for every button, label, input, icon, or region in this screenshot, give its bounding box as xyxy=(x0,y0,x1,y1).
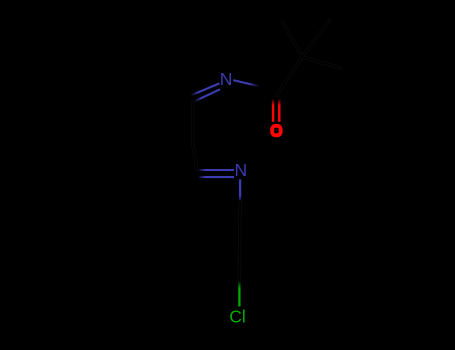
svg-text:N: N xyxy=(220,69,233,89)
svg-text:N: N xyxy=(235,160,248,180)
svg-text:Cl: Cl xyxy=(229,307,246,327)
